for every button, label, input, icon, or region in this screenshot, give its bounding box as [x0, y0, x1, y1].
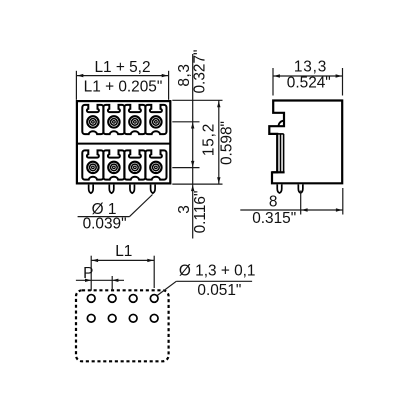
- svg-text:3: 3: [176, 205, 193, 214]
- dimension 8 (pin to edge): [240, 188, 342, 215]
- front solder pins: [89, 185, 94, 194]
- dimension L1 + 5,2 (top width of front view): [76, 71, 168, 100]
- svg-text:0.315": 0.315": [252, 210, 296, 227]
- dimension 3 (pin protrusion): [191, 185, 194, 191]
- svg-text:0.039": 0.039": [83, 215, 127, 232]
- dashed board outline: [76, 290, 169, 361]
- svg-text:L1 + 0.205": L1 + 0.205": [84, 79, 163, 96]
- side solder pins: [277, 184, 282, 193]
- cavity row 1: [82, 105, 103, 134]
- side body outline: [269, 101, 342, 184]
- svg-text:Ø 1,3 + 0,1: Ø 1,3 + 0,1: [179, 263, 256, 280]
- row divider line: [77, 143, 170, 145]
- svg-text:0.116": 0.116": [192, 191, 209, 234]
- svg-text:0.327": 0.327": [191, 50, 208, 94]
- internal wall lines: [277, 133, 284, 135]
- svg-text:0.524": 0.524": [287, 75, 331, 92]
- dimension 15,2 (body height): [218, 100, 220, 184]
- svg-text:15,2: 15,2: [200, 123, 217, 156]
- stacked vertical dimension line (8,3 row pitch and 3 pin length): [192, 54, 194, 239]
- svg-text:0.598": 0.598": [218, 121, 235, 165]
- svg-text:L1: L1: [115, 243, 132, 260]
- dimension 13,3 (side width): [273, 68, 343, 96]
- latch fillet arc: [279, 121, 285, 127]
- svg-text:8: 8: [269, 194, 278, 211]
- svg-text:P: P: [83, 265, 93, 282]
- svg-text:L1 + 5,2: L1 + 5,2: [94, 59, 150, 76]
- dimension L1 (hole span): [91, 256, 154, 291]
- svg-text:0.051": 0.051": [197, 282, 241, 299]
- drill holes row 2: [87, 314, 95, 322]
- right-hand extension lines of front view: [172, 54, 222, 239]
- dimension 8,3 (row pitch) arrows: [191, 122, 194, 128]
- drill holes row 1: [87, 295, 95, 303]
- svg-text:13,3: 13,3: [294, 59, 327, 76]
- cavity row 2: [82, 150, 103, 179]
- connector body outline: [77, 101, 170, 183]
- dimension P (hole pitch): [111, 276, 113, 291]
